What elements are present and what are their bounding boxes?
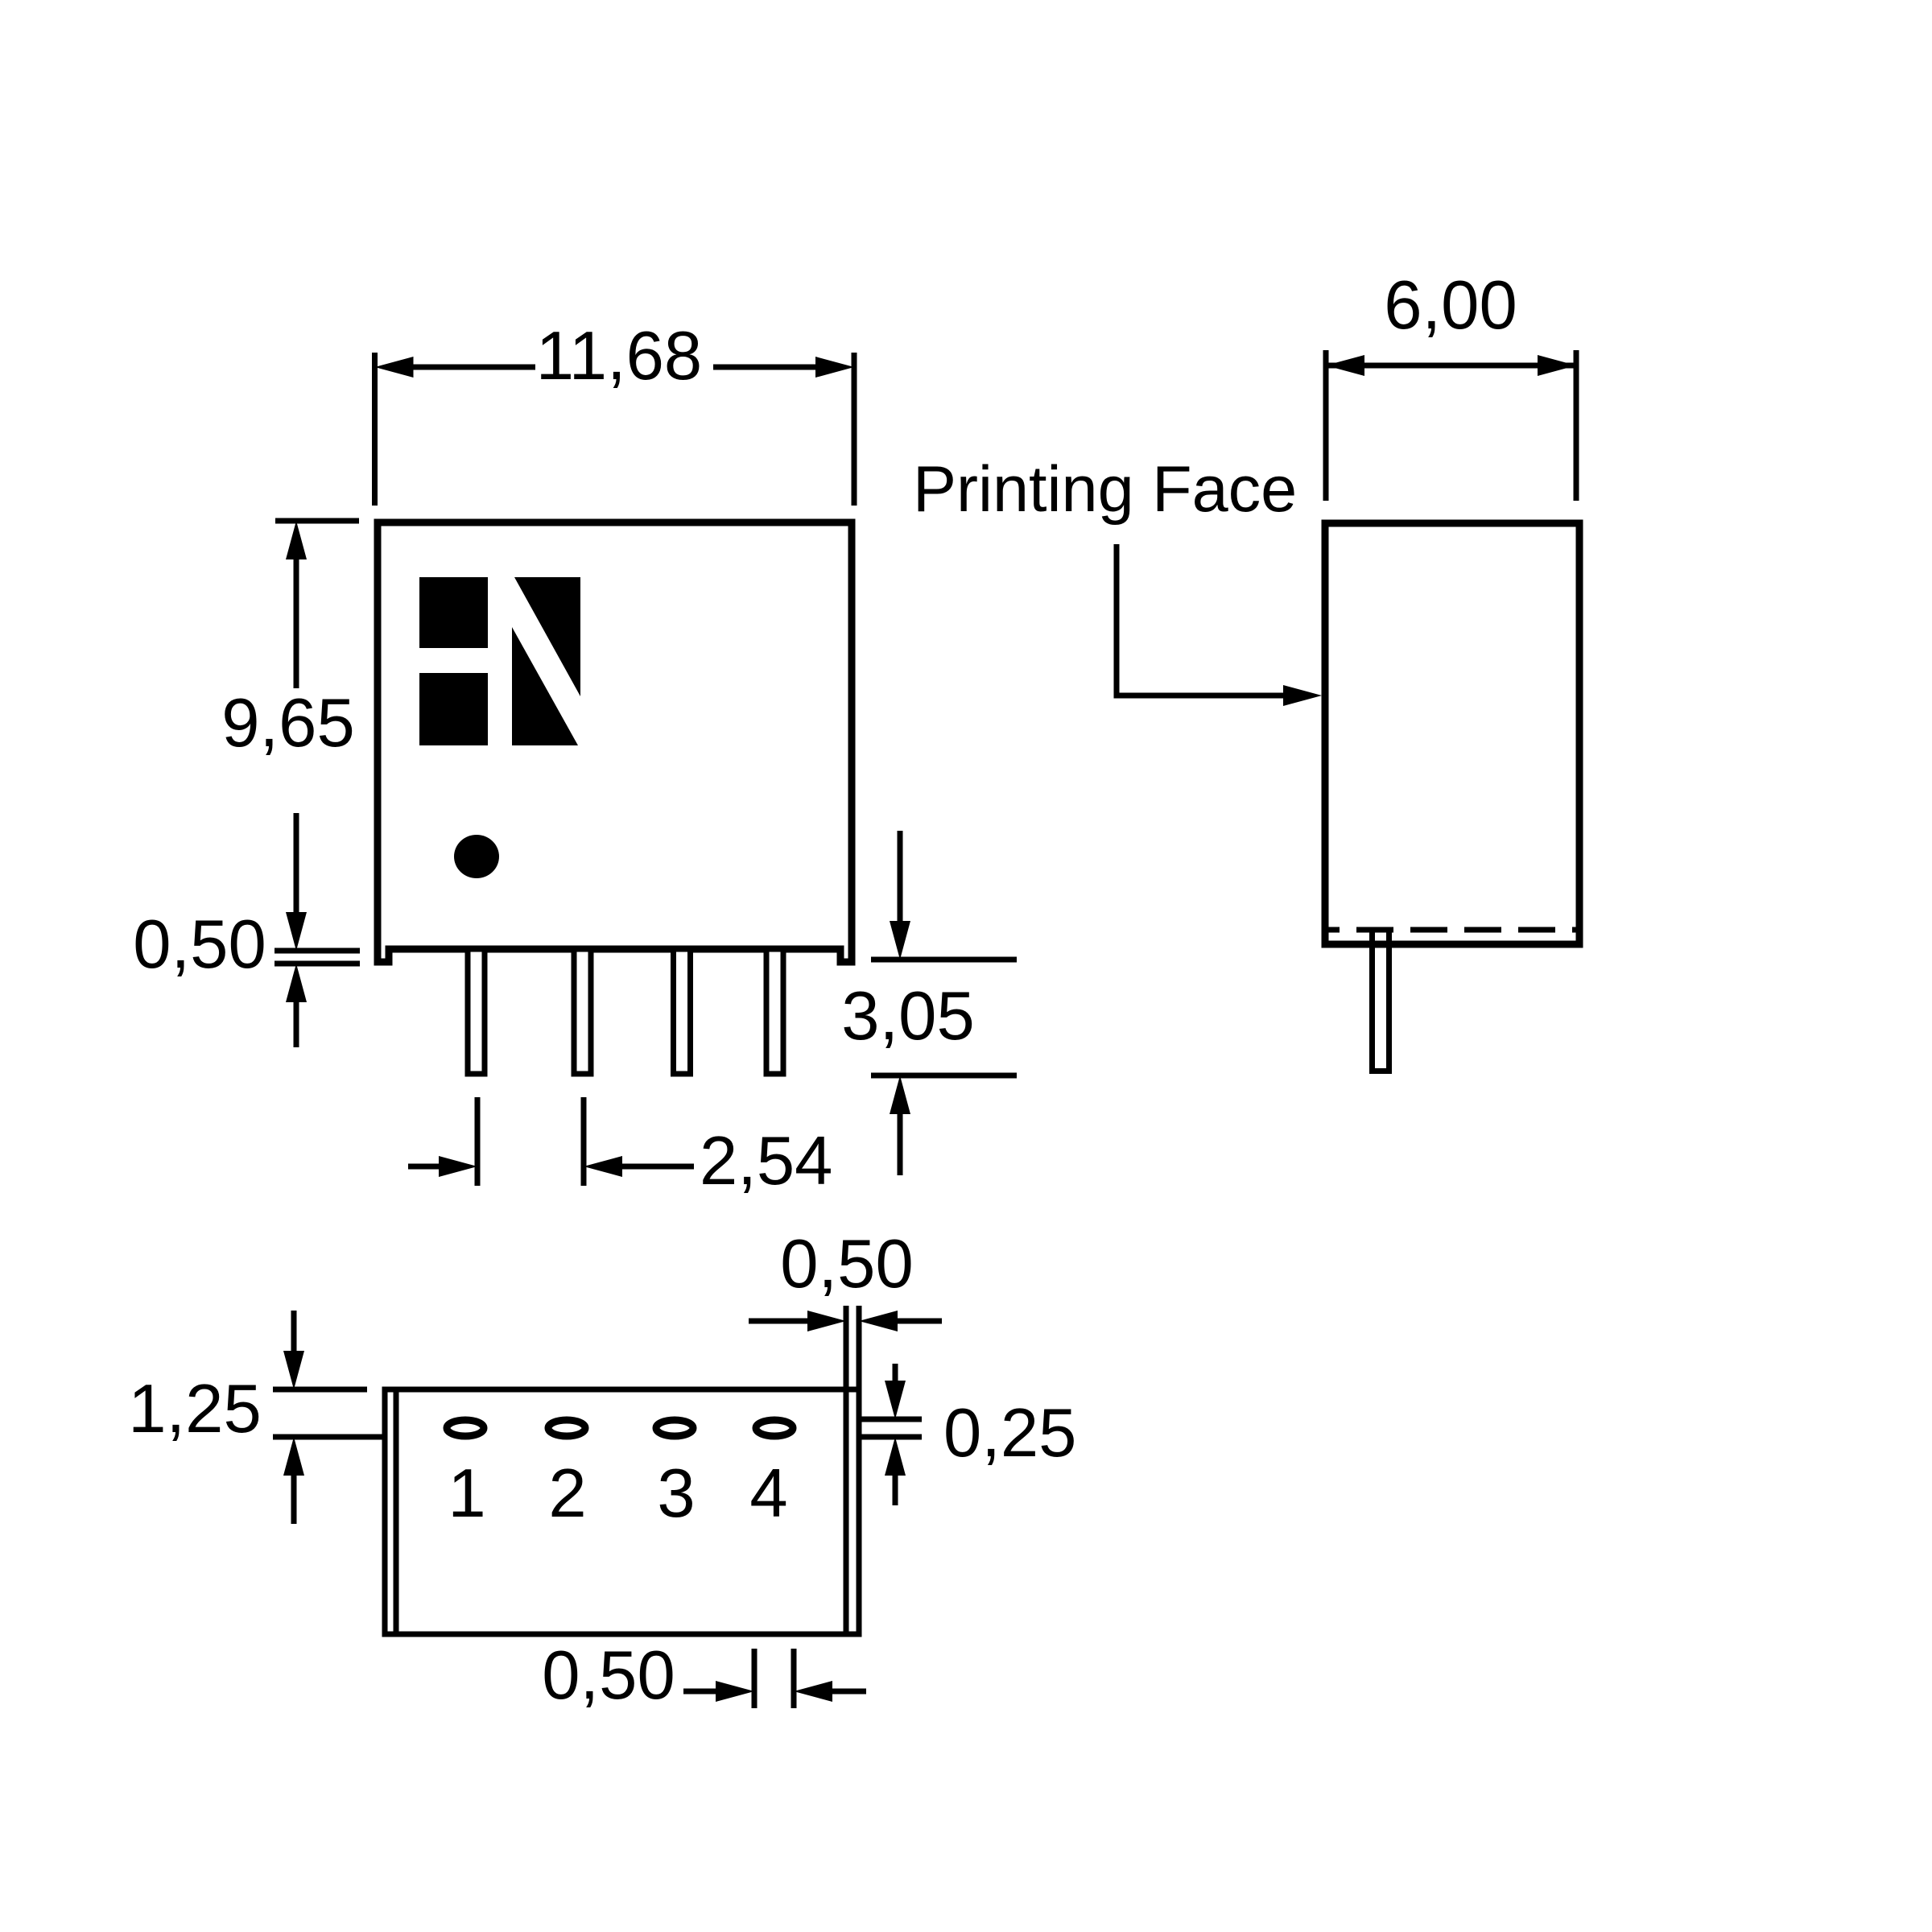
svg-text:0,25: 0,25: [943, 1395, 1076, 1472]
svg-text:0,50: 0,50: [133, 906, 266, 983]
svg-text:11,68: 11,68: [536, 318, 702, 394]
svg-text:4: 4: [749, 1455, 787, 1532]
svg-text:2,54: 2,54: [700, 1123, 832, 1199]
svg-text:3,05: 3,05: [841, 978, 974, 1055]
svg-text:2: 2: [548, 1455, 586, 1532]
svg-text:9,65: 9,65: [221, 685, 354, 762]
svg-text:1,25: 1,25: [128, 1371, 261, 1447]
svg-text:0,50: 0,50: [542, 1637, 675, 1714]
svg-text:Printing Face: Printing Face: [913, 453, 1297, 526]
svg-text:1: 1: [448, 1455, 485, 1532]
svg-text:0,50: 0,50: [780, 1226, 913, 1302]
svg-text:3: 3: [657, 1455, 695, 1532]
svg-text:6,00: 6,00: [1384, 267, 1517, 344]
